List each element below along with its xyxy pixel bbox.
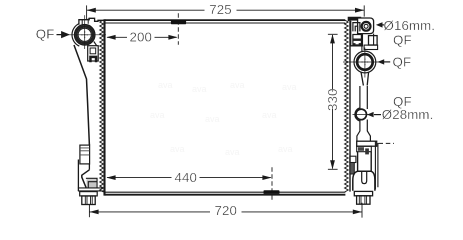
dim 200 right arrowhead bbox=[168, 35, 177, 40]
left foot bar bbox=[80, 192, 98, 196]
dim 720 left extension tick bbox=[88, 205, 90, 217]
label Oe16 arrow bbox=[378, 24, 384, 26]
right bracket top notch bbox=[348, 17, 361, 21]
left inlet pipe cap bbox=[79, 18, 104, 25]
svg-text:Ø16mm.: Ø16mm. bbox=[384, 18, 436, 33]
right H clip bbox=[353, 35, 362, 45]
top mounting tab bbox=[171, 20, 186, 24]
dim 440 right arrowhead bbox=[262, 175, 271, 180]
dim 330 bottom tick bbox=[328, 168, 338, 170]
left ribbed block fins bbox=[80, 148, 90, 155]
dim 720 right extension tick bbox=[361, 203, 363, 218]
bottom mounting tab bbox=[264, 190, 280, 194]
left inlet pipe stub lines bbox=[82, 19, 88, 25]
dim 330 top arrowhead bbox=[330, 34, 335, 43]
dim 440 line bbox=[107, 177, 271, 179]
pipe diagonals below mid fitting bbox=[361, 72, 369, 86]
dim 725 line bbox=[87, 9, 365, 11]
right foot castellation bbox=[357, 196, 370, 204]
core bottom edge inner line bbox=[105, 191, 346, 193]
core bottom edge outer line bbox=[105, 194, 346, 196]
right bracket verticals bbox=[375, 141, 378, 189]
dim 440 left arrowhead bbox=[106, 175, 115, 180]
right bell neck bbox=[358, 152, 372, 172]
left foot castellation bbox=[82, 196, 95, 205]
label QF mid arrow bbox=[384, 61, 391, 63]
inlet fitting outer collar arc bbox=[72, 24, 79, 47]
faint watermark smudges in core area bbox=[150, 80, 297, 157]
left tank wall lower bbox=[78, 160, 89, 192]
svg-text:200: 200 bbox=[130, 30, 153, 45]
svg-text:ava: ava bbox=[170, 144, 185, 154]
svg-text:ava: ava bbox=[150, 110, 165, 120]
svg-text:ava: ava bbox=[262, 110, 277, 120]
svg-text:ava: ava bbox=[158, 80, 173, 90]
pipe below Oe28 bbox=[357, 120, 371, 141]
Oe16 fitting inner circle bbox=[364, 24, 368, 28]
svg-text:ava: ava bbox=[192, 84, 207, 94]
right foot bar bbox=[354, 191, 372, 195]
left ribbed block bbox=[80, 145, 90, 164]
left tank bottom band bbox=[78, 188, 104, 191]
top tab centerline dashed bbox=[177, 13, 179, 45]
right serrated gasket edge bbox=[345, 20, 349, 192]
left foot castellation slots bbox=[85, 196, 92, 205]
svg-text:ava: ava bbox=[225, 147, 240, 157]
inlet fitting center cross dots bbox=[81, 31, 88, 38]
svg-text:330: 330 bbox=[325, 88, 340, 111]
left step bracket post bbox=[88, 182, 97, 188]
dim 330 bottom arrowhead bbox=[330, 160, 335, 169]
svg-text:Ø28mm.: Ø28mm. bbox=[382, 107, 434, 122]
right bracket outline bbox=[351, 21, 363, 46]
Oe28 collar arc bbox=[355, 108, 360, 121]
right U clip bbox=[353, 23, 360, 32]
svg-text:ava: ava bbox=[278, 144, 293, 154]
left clip dark retainer bbox=[89, 56, 97, 63]
dim 330 top tick bbox=[328, 33, 338, 35]
left step bracket outer bbox=[86, 178, 97, 188]
right bell dome bbox=[353, 171, 375, 191]
left bracket right connector bbox=[94, 42, 97, 46]
left serrated gasket edge bbox=[100, 20, 104, 192]
left lower diagonal bbox=[82, 170, 90, 188]
dim 720 right arrowhead bbox=[353, 210, 362, 215]
label QF left arrow bbox=[57, 32, 69, 37]
inlet fitting vertical centerline bbox=[84, 15, 86, 49]
svg-text:725: 725 bbox=[209, 2, 232, 17]
Oe16 fitting bracket bbox=[358, 18, 374, 34]
core top edge outer line bbox=[105, 19, 346, 21]
Oe28 centerline bbox=[353, 113, 371, 115]
dim 200 left arrowhead bbox=[106, 35, 115, 40]
inlet fitting inner circle bbox=[78, 28, 91, 41]
pipe to Oe28 bbox=[360, 86, 367, 109]
right H clip feet bbox=[353, 43, 361, 45]
inlet fitting dark ring bbox=[76, 26, 93, 43]
inlet fitting horizontal centerline bbox=[67, 34, 106, 36]
right bell inner line bbox=[365, 148, 369, 154]
dim 200 line bbox=[107, 36, 177, 38]
hose band dark block bbox=[358, 147, 364, 151]
svg-text:QF: QF bbox=[36, 27, 55, 42]
svg-text:440: 440 bbox=[175, 170, 198, 185]
core left side plate bbox=[103, 19, 105, 195]
inlet fitting outer circle bbox=[75, 25, 95, 45]
dim 725 right arrowhead bbox=[355, 8, 364, 13]
right side clip bbox=[350, 156, 356, 162]
dashed stub line bbox=[379, 142, 395, 144]
right side clip lower bbox=[350, 163, 354, 175]
right foot castellation slots bbox=[359, 196, 366, 204]
mid fitting vertical centerline bbox=[364, 48, 366, 78]
rect above mid fitting bbox=[364, 45, 378, 49]
mid fitting center cross dots bbox=[361, 59, 368, 66]
bottom tab centerline dashed bbox=[271, 167, 273, 201]
hose band upper bbox=[357, 141, 377, 146]
left clip outline bbox=[88, 46, 99, 61]
left clip inner window bbox=[90, 48, 96, 54]
dim 725 left arrowhead bbox=[87, 8, 96, 13]
dim 330 line bbox=[332, 35, 334, 169]
mid fitting thick ring bbox=[357, 54, 373, 70]
connector down to mid fitting bbox=[362, 34, 374, 52]
right small square bbox=[369, 36, 378, 45]
dim 725 right extension tick bbox=[363, 5, 365, 16]
label Oe28 arrow bbox=[374, 114, 381, 116]
dim 725 left extension tick bbox=[86, 5, 88, 19]
svg-text:QF: QF bbox=[393, 33, 412, 48]
mid fitting horizontal centerline bbox=[343, 61, 380, 63]
left step bracket inner bbox=[87, 179, 97, 187]
Oe28 outlet circle bbox=[356, 109, 367, 120]
Oe16 fitting outer circle bbox=[362, 22, 371, 31]
dim 720 left arrowhead bbox=[89, 210, 98, 215]
svg-text:ava: ava bbox=[282, 82, 297, 92]
right bell inner tube bbox=[362, 171, 367, 183]
svg-text:720: 720 bbox=[215, 203, 238, 218]
core top edge inner line bbox=[105, 22, 346, 24]
right tank wall line bbox=[349, 19, 351, 192]
svg-text:QF: QF bbox=[393, 54, 412, 69]
right H clip band bbox=[353, 39, 362, 41]
left tank bracket diagonal bbox=[74, 45, 89, 145]
hose band lower bbox=[357, 146, 372, 152]
svg-text:ava: ava bbox=[230, 80, 245, 90]
mid fitting outer circle bbox=[354, 51, 376, 73]
svg-text:ava: ava bbox=[205, 114, 220, 124]
dim 720 line bbox=[89, 211, 362, 213]
